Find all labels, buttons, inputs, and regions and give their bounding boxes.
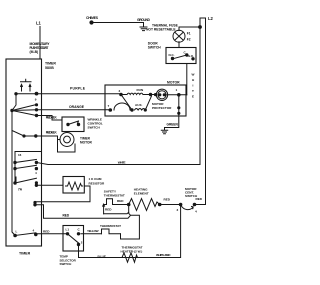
svg-text:9: 9 (35, 98, 37, 102)
svg-text:C: C (78, 227, 81, 231)
svg-text:L2: L2 (208, 16, 214, 21)
svg-text:4: 4 (195, 209, 197, 213)
safety thermostat (104, 199, 129, 205)
wire timer pivot bus (14, 152, 16, 184)
svg-text:L1: L1 (36, 21, 42, 26)
node push-start right (35, 92, 38, 95)
svg-text:(M-B): (M-B) (30, 50, 39, 54)
svg-text:SWITCH: SWITCH (148, 46, 162, 50)
push-to-start arrows (21, 84, 31, 91)
heating element resistor (129, 199, 160, 211)
svg-text:GROUND: GROUND (137, 18, 151, 22)
node cent switch 4 (193, 203, 196, 206)
wire timer red long line (35, 205, 131, 218)
svg-text:AUX.: AUX. (135, 103, 143, 107)
svg-text:RED: RED (117, 199, 124, 203)
node red stub terminal (34, 201, 36, 203)
wire yellow (81, 233, 102, 235)
motor protector (156, 89, 167, 100)
timer motor (60, 133, 74, 147)
node aux left (131, 109, 133, 111)
node push-start left (15, 93, 17, 95)
wire timer motor loop (58, 140, 76, 153)
switch selector blade (68, 234, 79, 243)
svg-text:RESISTOR: RESISTOR (89, 181, 106, 185)
svg-text:RED: RED (164, 197, 171, 201)
svg-text:THERMOSTAT: THERMOSTAT (104, 194, 125, 198)
node bottom switch left (14, 234, 17, 237)
node cam5 terminal (35, 167, 37, 169)
timer box (6, 59, 42, 246)
node wrinkle right (77, 123, 79, 125)
svg-text:CHIMES: CHIMES (86, 16, 99, 20)
switch timer cam blade 6 (15, 178, 36, 183)
node run end (149, 93, 151, 95)
wire timer to L2 (long) (36, 163, 200, 165)
wire white (door to motor) (186, 64, 188, 95)
node wrinkle left (67, 123, 69, 125)
switch timer cam blade 1b (12, 109, 37, 112)
svg-text:SWITCH: SWITCH (88, 126, 101, 130)
node cent switch 3 (179, 203, 182, 206)
switch timer cam blade 2 (12, 111, 37, 116)
svg-text:THERMOSTAT: THERMOSTAT (100, 224, 121, 228)
switch timer cam blade 5 (15, 165, 36, 168)
node door NC (171, 57, 173, 59)
svg-text:MOTOR: MOTOR (80, 141, 93, 145)
node motor right junction (178, 94, 181, 97)
switch timer bottom blade (15, 233, 36, 236)
wire thermal fuse to L2 (179, 27, 200, 31)
svg-text:ELEMENT: ELEMENT (134, 192, 149, 196)
node cam6 pivot (14, 182, 16, 184)
svg-text:58XB: 58XB (45, 66, 54, 70)
thermostat bias (102, 229, 121, 234)
wire aux to junction (145, 96, 151, 110)
node timer cam junction (11, 109, 13, 111)
svg-text:RED: RED (196, 197, 203, 201)
svg-text:RED: RED (43, 230, 50, 234)
node heating right (158, 203, 161, 206)
node aux right (144, 109, 146, 111)
node L2 tap (199, 26, 202, 29)
node resistor feed terminal (35, 182, 37, 184)
wire motor ground green (165, 116, 179, 128)
svg-text:RED: RED (63, 213, 70, 217)
wire heating to cent switch (160, 204, 181, 206)
motor box (105, 85, 186, 116)
node selector C (77, 233, 79, 235)
svg-text:16: 16 (18, 153, 22, 157)
switch door blade (175, 55, 187, 58)
node cam4 terminal (35, 161, 37, 163)
wire selector 2 drop (78, 245, 80, 258)
wire motor internal right (178, 95, 180, 116)
node cam5 pivot (14, 167, 16, 169)
svg-text:BLUE: BLUE (98, 254, 106, 258)
node bottom switch right (35, 233, 38, 236)
svg-text:RED: RED (105, 208, 112, 212)
svg-text:YELLOW: YELLOW (87, 229, 99, 233)
svg-text:T: T (192, 89, 194, 93)
wire fuse to door switch (178, 42, 180, 48)
switch centrifugal blade (3 to aux) (121, 95, 132, 111)
wire safety left vertical (103, 205, 105, 214)
svg-text:WHITE: WHITE (118, 161, 126, 165)
wire push-start row (16, 93, 37, 95)
wire run to protector (121, 94, 156, 96)
node heating left (127, 203, 130, 206)
svg-text:F1: F1 (187, 31, 191, 35)
wire internal bus (12, 94, 16, 236)
svg-text:WHITE-RED: WHITE-RED (156, 253, 171, 257)
svg-text:4: 4 (33, 229, 35, 233)
svg-text:TIMER: TIMER (19, 252, 31, 256)
svg-text:7A: 7A (18, 188, 23, 192)
svg-text:E: E (192, 95, 194, 99)
svg-text:L1: L1 (66, 228, 70, 232)
svg-text:MOTOR: MOTOR (167, 80, 180, 84)
node selector L1 (66, 233, 68, 235)
wire L1 feed (39, 27, 41, 60)
wire resistor out (84, 186, 90, 202)
node red-blk terminal (35, 114, 37, 116)
svg-text:4: 4 (35, 171, 37, 175)
svg-text:H: H (192, 78, 195, 82)
wire timer to resistor (37, 184, 64, 186)
timer inner partition wire (15, 151, 42, 153)
node door C (186, 54, 188, 56)
wire heating dot drop (128, 205, 130, 214)
aux winding (135, 109, 146, 111)
resistor box (1 k ohm) (63, 177, 84, 194)
switch timer cam blade 4 (15, 160, 36, 163)
svg-text:RED-BLK: RED-BLK (46, 131, 58, 135)
switch wrinkle blade (68, 121, 79, 125)
wrinkle control switch box (62, 117, 84, 132)
node motor terminal 3 (120, 93, 123, 96)
node motor bottom terminal (178, 107, 180, 109)
switch centrifugal (181, 206, 193, 210)
wire orange (37, 109, 111, 111)
node orange terminal (35, 109, 37, 111)
door switch box (166, 48, 196, 64)
svg-text:W: W (192, 73, 195, 77)
svg-text:GREEN: GREEN (167, 123, 179, 127)
wire cent to L2 (195, 204, 206, 206)
ground symbol (chassis) (140, 23, 147, 31)
thermostat heater resistor (121, 253, 138, 262)
svg-text:2: 2 (81, 241, 83, 245)
svg-text:PROTECTOR: PROTECTOR (152, 106, 172, 110)
wire white-red riser (79, 205, 181, 258)
aux start switch arc (114, 103, 130, 110)
wire thermostat lower branch (104, 212, 140, 239)
switch: momentary push-to-start contact bar (21, 79, 32, 82)
svg-text:I: I (193, 84, 194, 88)
temp selector switch box (63, 226, 84, 252)
node cam3 mid (23, 135, 25, 137)
wire purple (37, 93, 122, 95)
chimes buzzer (90, 21, 93, 24)
node cam3 right (35, 135, 37, 137)
svg-text:ORANGE: ORANGE (69, 105, 85, 109)
svg-text:L: L (16, 230, 18, 234)
node motor terminal 7 (109, 109, 112, 112)
switch timer cam blade 1 (12, 105, 37, 111)
wire L2 bus (200, 18, 206, 205)
wire red-blk to timer motor (36, 136, 60, 140)
wire red-blk to wrinkle switch (37, 116, 63, 121)
svg-text:7: 7 (108, 104, 110, 108)
wire timer to resistor-out junction (35, 201, 90, 203)
svg-text:RUN: RUN (137, 88, 144, 92)
svg-text:F2: F2 (187, 38, 191, 42)
resistor 1 k ohm (66, 182, 83, 190)
svg-text:PURPLE: PURPLE (70, 87, 86, 91)
node door NO (192, 58, 194, 60)
ground symbol (motor) (161, 128, 167, 134)
node cam4 pivot (14, 161, 16, 163)
svg-text:3: 3 (177, 208, 179, 212)
svg-text:3: 3 (119, 89, 121, 93)
svg-text:1: 1 (176, 88, 178, 92)
wire chimes dashed (93, 22, 143, 24)
svg-text:SWITCH: SWITCH (60, 262, 72, 266)
node selector 2 (77, 243, 79, 245)
node cam1 tip (35, 104, 37, 106)
svg-text:NOT RESETTABLE: NOT RESETTABLE (146, 28, 176, 32)
thermal fuse F1 F2 (173, 30, 185, 42)
wire protector to node 1 (167, 94, 187, 96)
switch timer cam blade 3 (12, 131, 36, 137)
safety thermostat arrow terminal (102, 203, 105, 207)
wire timer to selector (36, 233, 68, 235)
svg-text:N.C.: N.C. (169, 53, 175, 57)
run winding (127, 93, 143, 94)
